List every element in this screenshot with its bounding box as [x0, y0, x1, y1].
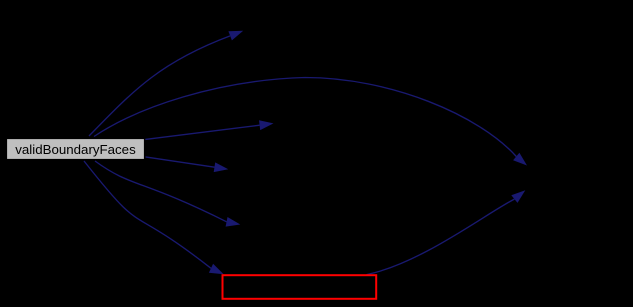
edge validBoundaryFaces -> mid-upper node (straight wire): [145, 120, 273, 139]
edge truncated red node -> far right node (curved wire): [367, 190, 526, 274]
svg-text:validBoundaryFaces: validBoundaryFaces: [15, 142, 136, 157]
edge validBoundaryFaces -> truncated red node (curved wire): [84, 161, 224, 274]
node validBoundaryFaces (current node, grey fill): [7, 139, 145, 160]
edge validBoundaryFaces -> top node (curved wire): [89, 31, 243, 136]
edge validBoundaryFaces -> mid node (straight wire): [146, 157, 229, 172]
edge validBoundaryFaces -> lower node (curved wire): [95, 161, 240, 227]
node truncated (red border, dark fill): [223, 275, 377, 299]
edge validBoundaryFaces -> far right node (long top arc wire): [94, 78, 527, 166]
